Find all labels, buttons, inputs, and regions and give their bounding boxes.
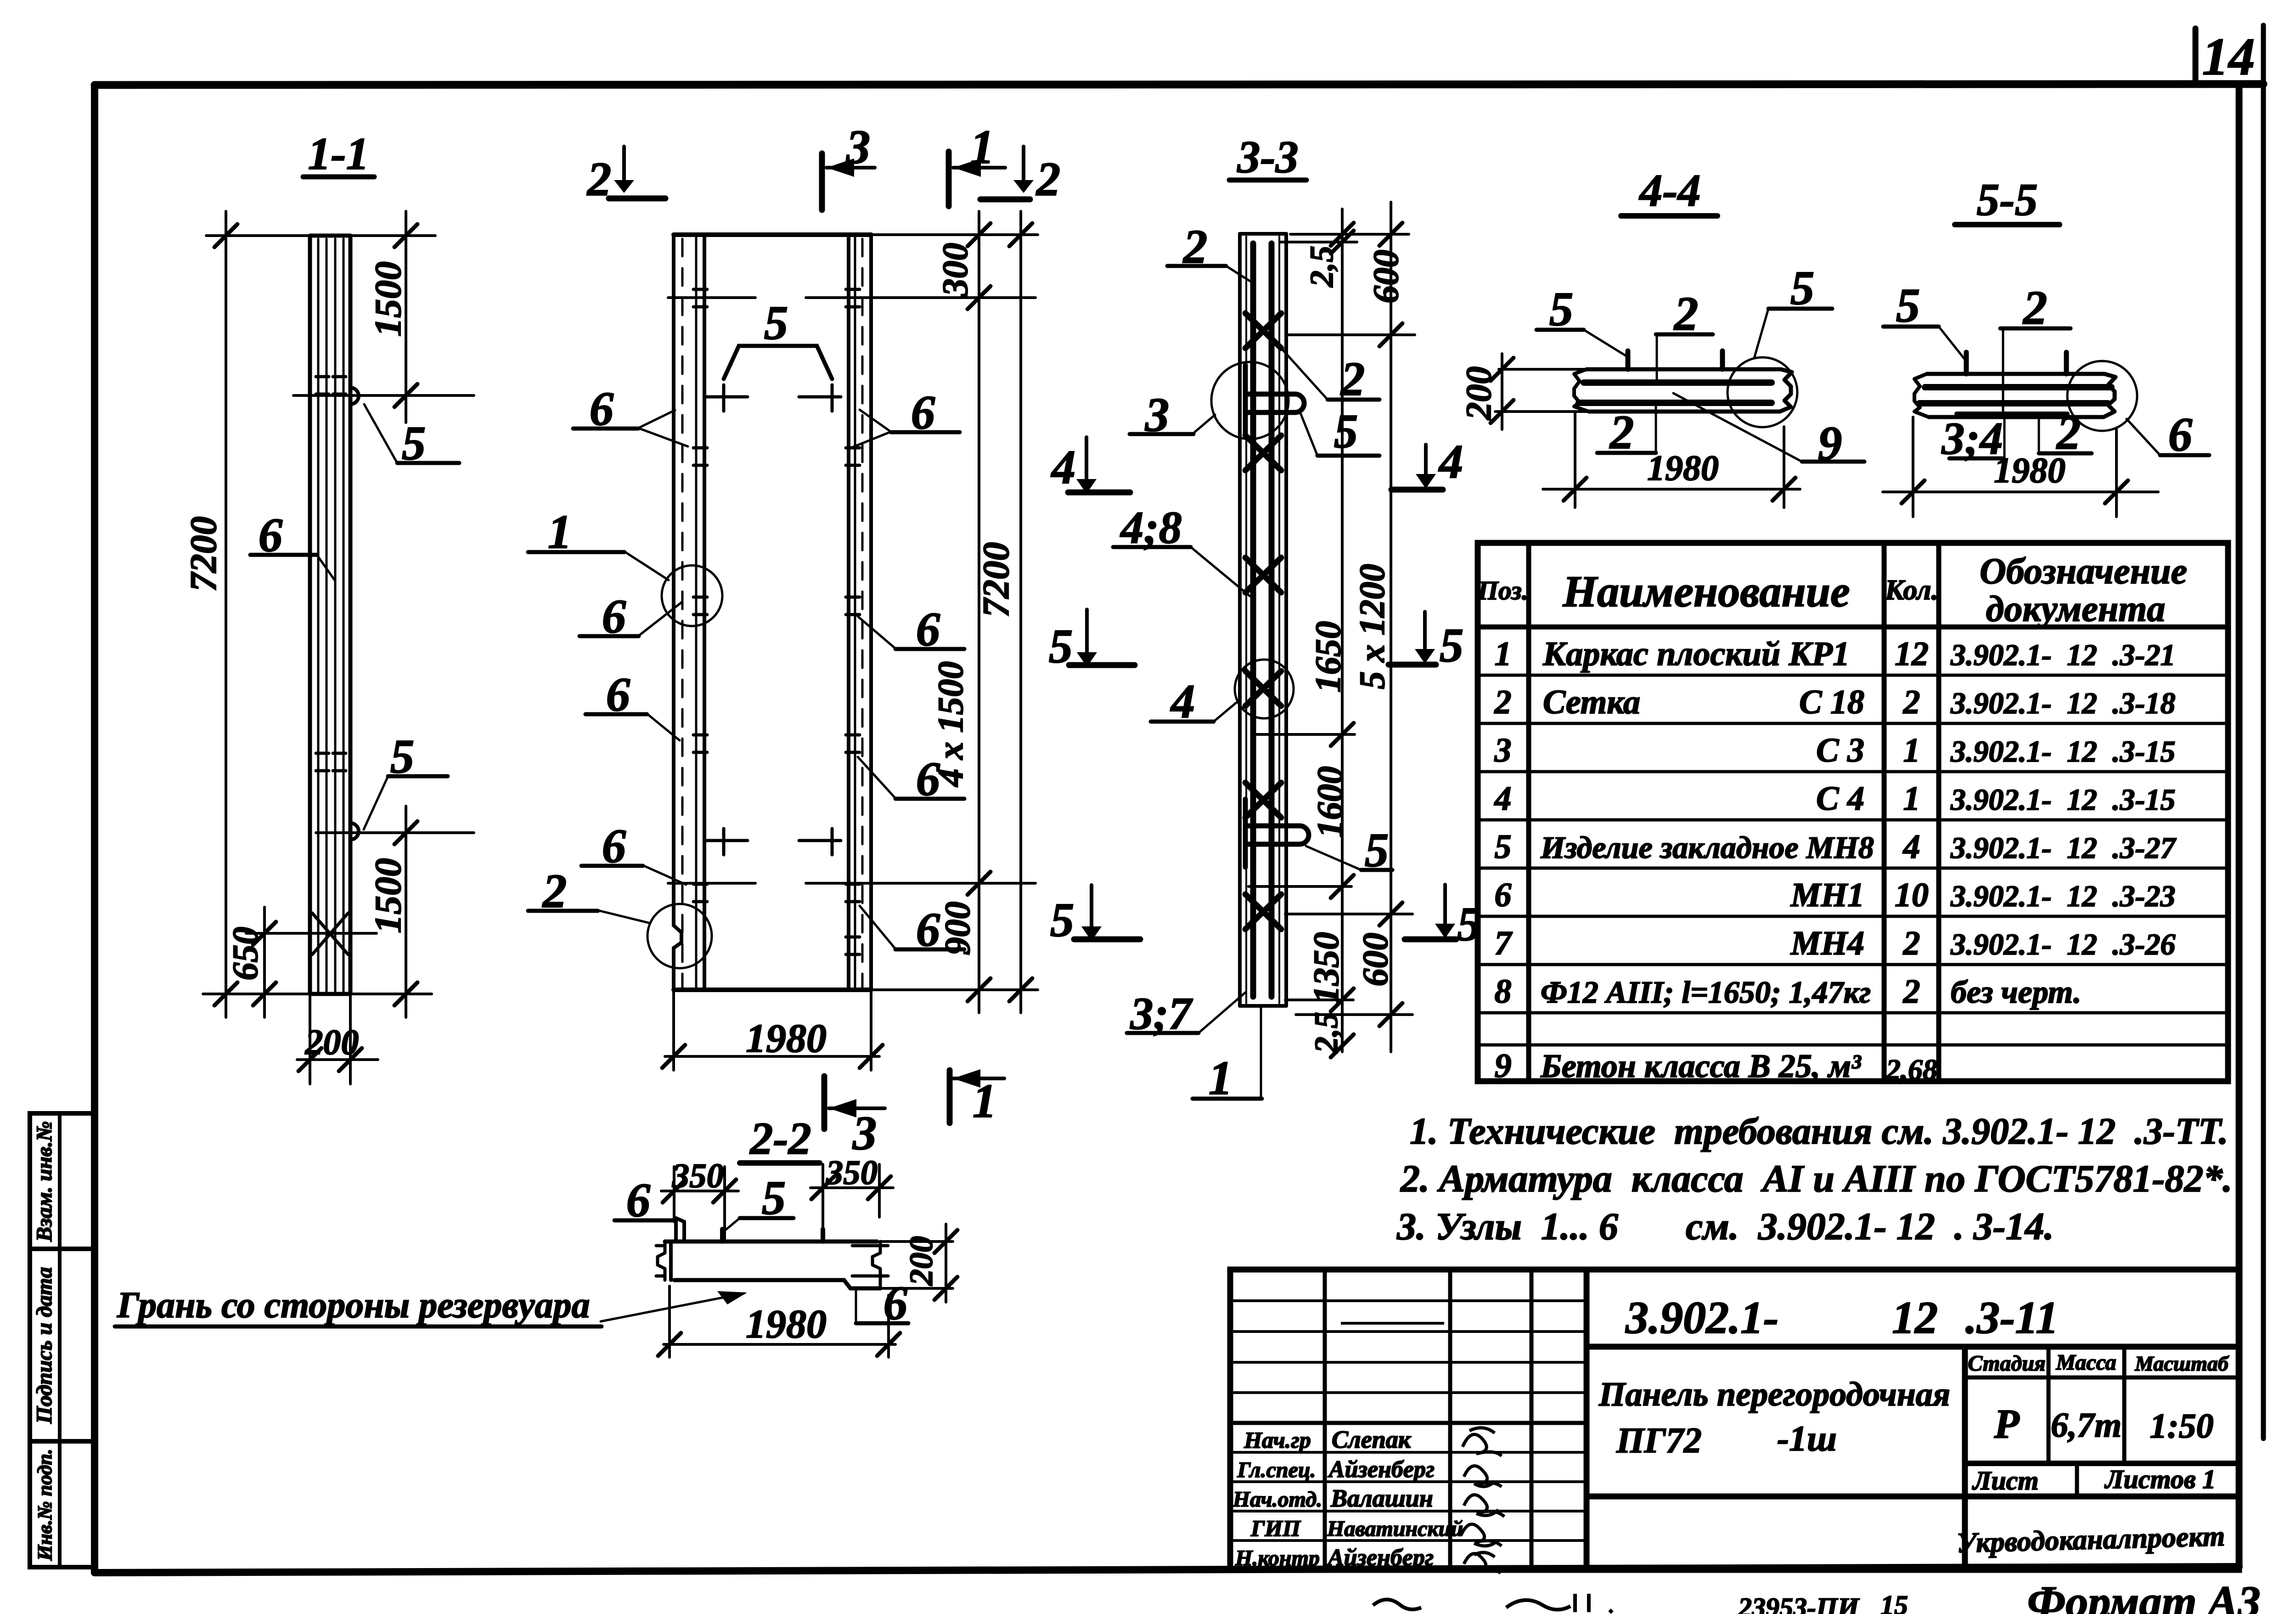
svg-text:1980: 1980 [1647, 448, 1719, 488]
svg-text:2: 2 [1903, 973, 1920, 1010]
svg-text:2: 2 [1903, 925, 1920, 962]
svg-text:2: 2 [1340, 352, 1365, 406]
svg-text:Лист: Лист [1972, 1466, 2039, 1495]
svg-text:Взам. инв.№: Взам. инв.№ [32, 1121, 56, 1242]
svg-text:МН4: МН4 [1790, 925, 1864, 962]
svg-text:1: 1 [548, 505, 572, 559]
svg-text:1: 1 [973, 1074, 997, 1128]
svg-text:5: 5 [1549, 282, 1574, 336]
svg-text:1600: 1600 [1310, 766, 1350, 838]
svg-text:5: 5 [1790, 261, 1815, 315]
svg-text:6: 6 [626, 1173, 651, 1227]
svg-text:2,68: 2,68 [1885, 1053, 1937, 1086]
svg-text:С 18: С 18 [1799, 683, 1864, 721]
svg-text:1980: 1980 [746, 1016, 827, 1061]
svg-text:1350: 1350 [1306, 932, 1346, 1004]
svg-text:3.902.1- 12 .3-15: 3.902.1- 12 .3-15 [1950, 783, 2175, 817]
svg-text:6: 6 [1495, 876, 1512, 914]
svg-text:3.902.1- 12 .3-27: 3.902.1- 12 .3-27 [1950, 831, 2177, 865]
svg-text:7200: 7200 [975, 542, 1017, 617]
svg-text:Листов 1: Листов 1 [2105, 1464, 2216, 1494]
svg-text:650: 650 [225, 927, 265, 981]
svg-text:2,5: 2,5 [1303, 246, 1340, 288]
svg-text:3. Узлы 1... 6 см. 3.9: 3. Узлы 1... 6 см. 3.902.1- 12 . 3-14. [1396, 1205, 2054, 1248]
svg-text:Сетка: Сетка [1543, 683, 1640, 721]
svg-text:600: 600 [1366, 250, 1406, 304]
svg-text:4: 4 [1170, 674, 1195, 728]
svg-text:5: 5 [762, 1171, 786, 1225]
svg-text:С 3: С 3 [1816, 732, 1864, 769]
svg-text:3: 3 [1145, 388, 1170, 441]
svg-text:5: 5 [402, 416, 426, 470]
svg-text:1: 1 [1903, 732, 1920, 769]
svg-text:1:50: 1:50 [2150, 1407, 2213, 1445]
svg-text:Масса: Масса [2055, 1350, 2116, 1375]
svg-text:1. Технические требования см.: 1. Технические требования см. 3.902.1- 1… [1410, 1110, 2228, 1152]
svg-text:3.902.1- 12 .3-23: 3.902.1- 12 .3-23 [1950, 880, 2175, 913]
svg-text:6: 6 [2168, 407, 2193, 461]
svg-text:4: 4 [1494, 780, 1512, 818]
svg-text:5 x 1200: 5 x 1200 [1352, 564, 1392, 689]
svg-text:Гл.спец.: Гл.спец. [1237, 1458, 1316, 1482]
svg-text:6: 6 [916, 602, 940, 656]
svg-text:5: 5 [1495, 828, 1512, 866]
svg-text:Р: Р [1994, 1401, 2020, 1447]
svg-text:Подпись и дата: Подпись и дата [32, 1267, 56, 1424]
svg-text:Бетон класса В 25, м³: Бетон класса В 25, м³ [1540, 1048, 1862, 1084]
svg-text:Наименование: Наименование [1562, 567, 1850, 616]
svg-text:-1ш: -1ш [1777, 1418, 1837, 1458]
svg-text:Инв.№ подп.: Инв.№ подп. [34, 1449, 56, 1561]
svg-text:900: 900 [937, 902, 977, 955]
svg-text:3: 3 [846, 120, 871, 174]
svg-text:12: 12 [1892, 1292, 1938, 1343]
svg-text:9: 9 [1495, 1047, 1512, 1085]
svg-text:5: 5 [390, 729, 415, 783]
svg-text:ГИП: ГИП [1250, 1515, 1301, 1541]
svg-text:8: 8 [1495, 973, 1512, 1010]
svg-text:3;7: 3;7 [1130, 988, 1193, 1039]
svg-text:3.902.1- 12 .3-18: 3.902.1- 12 .3-18 [1950, 687, 2175, 720]
svg-text:2: 2 [1035, 152, 1061, 206]
svg-text:3-3: 3-3 [1237, 131, 1298, 182]
svg-text:6: 6 [590, 382, 614, 435]
svg-text:2: 2 [1903, 683, 1920, 721]
svg-text:2. Арматура класса АI и АIII: 2. Арматура класса АI и АIII по ГОСТ5781… [1400, 1157, 2232, 1200]
svg-text:Изделие закладное МН8: Изделие закладное МН8 [1540, 830, 1874, 865]
svg-text:5: 5 [1334, 404, 1358, 458]
svg-text:3: 3 [1494, 732, 1512, 769]
svg-text:4 x 1500: 4 x 1500 [930, 661, 970, 788]
svg-text:2: 2 [1494, 683, 1512, 721]
svg-text:1980: 1980 [746, 1302, 827, 1347]
svg-text:3.902.1- 12 .3-26: 3.902.1- 12 .3-26 [1950, 928, 2175, 961]
svg-text:3.902.1- 12 .3-21: 3.902.1- 12 .3-21 [1950, 638, 2175, 672]
svg-text:5: 5 [1440, 618, 1464, 672]
svg-text:4;8: 4;8 [1120, 502, 1182, 553]
svg-text:2: 2 [1609, 405, 1634, 459]
svg-text:7200: 7200 [182, 516, 224, 592]
svg-text:300: 300 [935, 243, 975, 297]
svg-text:10: 10 [1895, 876, 1929, 914]
svg-text:14: 14 [2202, 28, 2255, 86]
svg-text:200: 200 [305, 1022, 359, 1062]
svg-text:Кол.: Кол. [1885, 575, 1938, 606]
svg-text:200: 200 [903, 1236, 940, 1286]
svg-text:5: 5 [1896, 278, 1920, 332]
svg-text:1: 1 [1209, 1051, 1233, 1105]
svg-text:2: 2 [586, 152, 612, 206]
svg-text:1: 1 [970, 120, 995, 174]
svg-text:9: 9 [1818, 416, 1842, 470]
svg-text:350: 350 [826, 1154, 878, 1192]
svg-text:1650: 1650 [1308, 621, 1348, 693]
svg-text:без черт.: без черт. [1951, 975, 2082, 1010]
svg-text:6,7т: 6,7т [2051, 1406, 2122, 1445]
svg-text:документа: документа [1986, 589, 2166, 629]
svg-text:2-2: 2-2 [749, 1113, 811, 1164]
svg-text:6: 6 [916, 903, 940, 956]
svg-text:6: 6 [606, 667, 630, 721]
svg-text:Н.контр: Н.контр [1235, 1546, 1320, 1570]
svg-text:1-1: 1-1 [308, 128, 369, 179]
svg-text:Масштаб: Масштаб [2134, 1352, 2229, 1375]
svg-text:6: 6 [259, 508, 283, 562]
svg-text:4-4: 4-4 [1638, 165, 1700, 216]
svg-text:4: 4 [1438, 435, 1463, 488]
svg-text:Формат А3: Формат А3 [2027, 1577, 2261, 1614]
svg-text:.3-11: .3-11 [1965, 1292, 2059, 1343]
svg-text:3.902.1-: 3.902.1- [1625, 1292, 1778, 1343]
svg-text:2: 2 [542, 864, 567, 918]
svg-text:350: 350 [672, 1157, 724, 1195]
svg-text:15: 15 [1880, 1590, 1908, 1614]
svg-text:1: 1 [1903, 780, 1920, 818]
svg-text:Панель перегородочная: Панель перегородочная [1598, 1376, 1950, 1413]
svg-text:7: 7 [1495, 925, 1513, 962]
svg-text:3: 3 [852, 1106, 877, 1160]
svg-text:2: 2 [1182, 220, 1208, 273]
svg-text:Обозначение: Обозначение [1980, 551, 2187, 592]
svg-text:Стадия: Стадия [1968, 1351, 2045, 1376]
svg-text:12: 12 [1895, 635, 1929, 673]
svg-text:МН1: МН1 [1790, 876, 1864, 914]
svg-text:600: 600 [1355, 933, 1395, 987]
svg-text:200: 200 [1458, 367, 1498, 421]
svg-text:5: 5 [1050, 893, 1075, 947]
svg-text:1980: 1980 [1994, 450, 2065, 490]
svg-text:Нач.отд.: Нач.отд. [1232, 1487, 1322, 1512]
svg-text:5: 5 [1365, 823, 1389, 877]
svg-text:ПГ72: ПГ72 [1616, 1420, 1702, 1460]
svg-text:Слепак: Слепак [1332, 1426, 1412, 1453]
svg-text:3.902.1- 12 .3-15: 3.902.1- 12 .3-15 [1950, 735, 2175, 768]
svg-text:5-5: 5-5 [1976, 174, 2037, 225]
svg-text:Айзенберг: Айзенберг [1328, 1456, 1435, 1483]
svg-text:6: 6 [602, 819, 626, 873]
svg-text:Айзенберг: Айзенберг [1327, 1545, 1434, 1571]
svg-text:Наватинский: Наватинский [1327, 1517, 1463, 1541]
svg-text:С 4: С 4 [1816, 780, 1864, 818]
svg-text:Нач.гр: Нач.гр [1244, 1427, 1311, 1453]
svg-text:23953-ПИ: 23953-ПИ [1738, 1592, 1860, 1614]
svg-text:Валашин: Валашин [1330, 1484, 1433, 1512]
svg-text:2,5: 2,5 [1308, 1012, 1345, 1054]
svg-text:Поз.: Поз. [1477, 576, 1528, 605]
svg-text:Каркас плоский КР1: Каркас плоский КР1 [1542, 635, 1850, 673]
svg-text:2: 2 [1673, 287, 1699, 340]
svg-text:6: 6 [911, 385, 935, 439]
svg-text:6: 6 [602, 589, 626, 643]
svg-text:4: 4 [1051, 440, 1076, 494]
svg-text:Грань со стороны резервуара: Грань со стороны резервуара [117, 1285, 590, 1326]
svg-text:1: 1 [1495, 635, 1512, 673]
svg-text:5: 5 [1049, 619, 1073, 673]
svg-text:1500: 1500 [367, 261, 409, 337]
svg-text:5: 5 [764, 296, 788, 350]
svg-text:2: 2 [2022, 281, 2048, 334]
svg-text:Ф12 АIII; l=1650; 1,47кг: Ф12 АIII; l=1650; 1,47кг [1541, 975, 1871, 1010]
svg-text:1500: 1500 [367, 858, 409, 933]
svg-text:4: 4 [1902, 828, 1920, 866]
